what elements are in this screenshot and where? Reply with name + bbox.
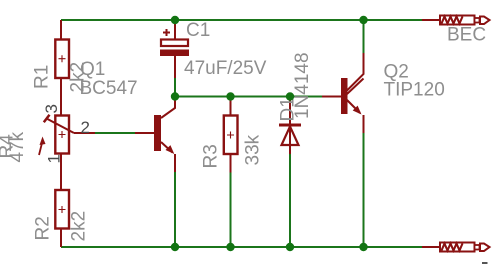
resistor R3 [224,97,238,173]
svg-text:BEC: BEC [447,25,486,46]
junction node R3 bottom [226,243,234,251]
junction node C1 top [171,16,179,24]
svg-text:R2: R2 [33,216,54,240]
transistor Q1 [135,97,175,173]
wire top rail [61,19,423,21]
diode D1 [279,97,301,155]
svg-text:C1: C1 [186,20,210,41]
wire bottom rail [61,246,423,248]
wire R3 bottom to bottom rail [230,173,232,248]
connector X1 BEC plug [422,16,490,25]
svg-text:47uF/25V: 47uF/25V [184,58,267,79]
wire pot wiper to Q1 base [95,132,135,134]
junction node D1 top [286,92,294,100]
resistor R1 [55,20,69,116]
wire Q2 emitter to bottom rail [363,133,365,247]
svg-text:R3: R3 [201,144,222,168]
svg-text:BC547: BC547 [80,78,138,99]
svg-text:2k2: 2k2 [69,211,90,242]
svg-text:1: 1 [45,154,64,163]
svg-text:1N4148: 1N4148 [292,52,313,119]
svg-text:TIP120: TIP120 [384,79,445,100]
wire C1 bottom to mid net [174,78,176,97]
svg-text:33k: 33k [243,134,264,165]
junction node Q2 collector top [359,16,367,24]
junction node Q1 emitter bottom [171,243,179,251]
wire D1 bottom to bottom rail [289,154,291,247]
wire mid base-drive net [175,96,322,98]
resistor R2 [55,190,69,247]
wire Q1 emitter to bottom rail [174,172,176,247]
watermark dash bottom right [482,262,488,264]
svg-text:3: 3 [42,104,61,113]
potentiometer R4 [39,115,95,190]
junction node Q2 emitter bottom [359,243,367,251]
svg-text:2: 2 [81,118,90,137]
svg-text:47k: 47k [7,131,28,162]
capacitor C1 [160,20,189,78]
connector X2 bottom plug [422,243,490,252]
transistor Q2 [322,53,364,133]
svg-text:Q1: Q1 [80,59,105,80]
junction node D1 bottom [286,243,294,251]
wire Q2 collector to top rail [363,20,365,53]
junction node C1 bottom / Q1 collector [171,92,179,100]
junction node R3 top [226,92,234,100]
svg-text:R1: R1 [32,65,53,89]
